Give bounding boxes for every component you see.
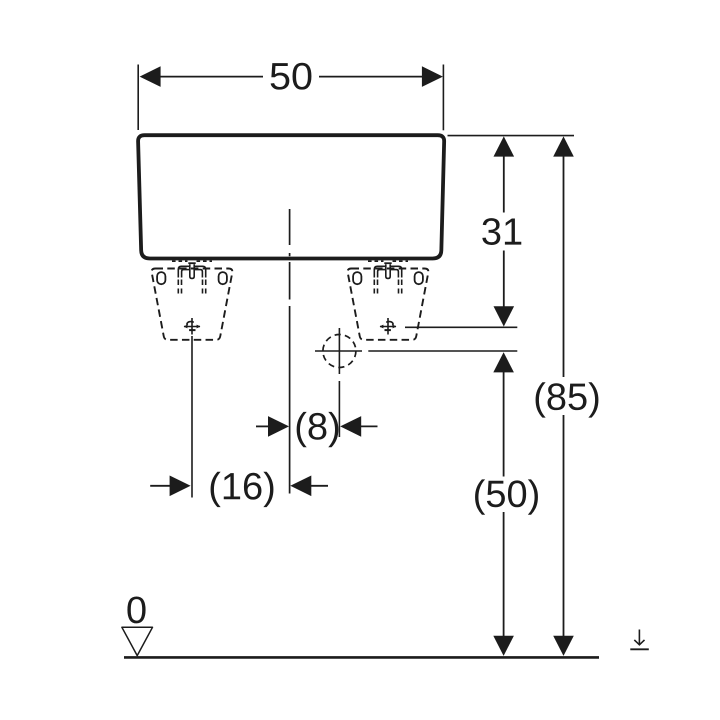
bracket slot left <box>353 272 361 284</box>
label 0 (datum) <box>127 596 145 623</box>
dimension (85) bottom arrow <box>553 636 574 656</box>
dimension (50) line lower segment <box>503 512 505 638</box>
hidden edge short dashed line under basin <box>368 260 384 262</box>
clip legs hidden dashed <box>373 280 375 294</box>
extension line at basin top right <box>448 135 575 137</box>
bracket slot right <box>415 272 423 284</box>
left bracket centre line <box>191 336 193 498</box>
bracket slot left <box>157 272 165 284</box>
dimension 50 line right segment <box>319 76 423 78</box>
dimension (8) right leader line <box>360 425 378 427</box>
extension line left (50 dim) <box>137 65 139 131</box>
label (85) <box>536 382 599 417</box>
label 50 <box>271 63 312 90</box>
extension line from drain centre to right <box>368 350 517 352</box>
clip outer contour <box>178 266 205 277</box>
dimension 31 line upper segment <box>503 154 505 213</box>
label 31 <box>482 218 521 245</box>
drain hole dashed circle <box>323 335 356 368</box>
hidden edge short dashed line under basin <box>172 260 188 262</box>
fixing point symbol mirrored <box>380 318 397 335</box>
dimension 50 right arrow <box>422 66 443 87</box>
dimension (85) line lower segment <box>563 415 565 638</box>
dimension (50) bottom arrow <box>493 636 514 656</box>
dimension 31 line lower segment <box>503 251 505 310</box>
dimension 50 line left segment <box>159 76 263 78</box>
left mounting bracket <box>152 261 233 340</box>
bracket slot right <box>219 272 227 284</box>
dimension (16) left leader line <box>150 485 170 487</box>
dimension (16) right arrow <box>290 476 311 497</box>
centre line of basin (dash-dot) <box>289 209 291 245</box>
fixing point symbol <box>184 318 201 335</box>
clip inner contour <box>182 270 203 278</box>
extension line right (50 dim) <box>442 65 444 131</box>
clip folded tab edge <box>188 262 195 264</box>
right mounting bracket <box>348 261 429 340</box>
clip inner contour <box>378 270 399 278</box>
floor level icon arrow shaft <box>638 630 640 645</box>
label (8) <box>297 412 339 447</box>
dimension (85) top arrow <box>553 136 574 156</box>
clip centre slot <box>386 264 390 278</box>
dimension 50 left arrow <box>140 66 161 87</box>
datum triangle <box>122 627 153 655</box>
dimension (85) line upper segment <box>563 154 565 377</box>
drain extension line downward <box>338 381 340 437</box>
dimension (8) left leader line <box>256 425 269 427</box>
floor line <box>124 656 599 659</box>
dimension (16) left arrow <box>170 476 191 497</box>
washbasin outline <box>138 135 444 258</box>
dimension (8) left arrow <box>268 416 289 437</box>
dimension 31 bottom arrow <box>494 306 515 326</box>
dimension (8) right arrow <box>340 416 361 437</box>
dimension 31 top arrow <box>494 136 515 156</box>
dimension (50) line upper segment <box>503 370 505 477</box>
floor level icon arrow head <box>634 640 644 645</box>
extension line from bracket fixing to right <box>405 326 517 328</box>
dimension (50) top arrow <box>493 352 514 372</box>
label (16) <box>211 472 274 507</box>
floor level icon underline <box>630 648 649 650</box>
clip legs hidden dashed <box>177 280 179 294</box>
bracket trapezoid dashed <box>348 269 429 340</box>
dimension (16) right leader line <box>310 485 328 487</box>
drain crosshair horizontal <box>315 350 362 352</box>
drain crosshair vertical <box>338 328 340 374</box>
clip folded tab edge <box>384 262 391 264</box>
label (50) <box>475 479 538 514</box>
bracket trapezoid dashed <box>152 269 233 340</box>
clip centre slot <box>190 264 194 278</box>
clip outer contour <box>374 266 401 277</box>
